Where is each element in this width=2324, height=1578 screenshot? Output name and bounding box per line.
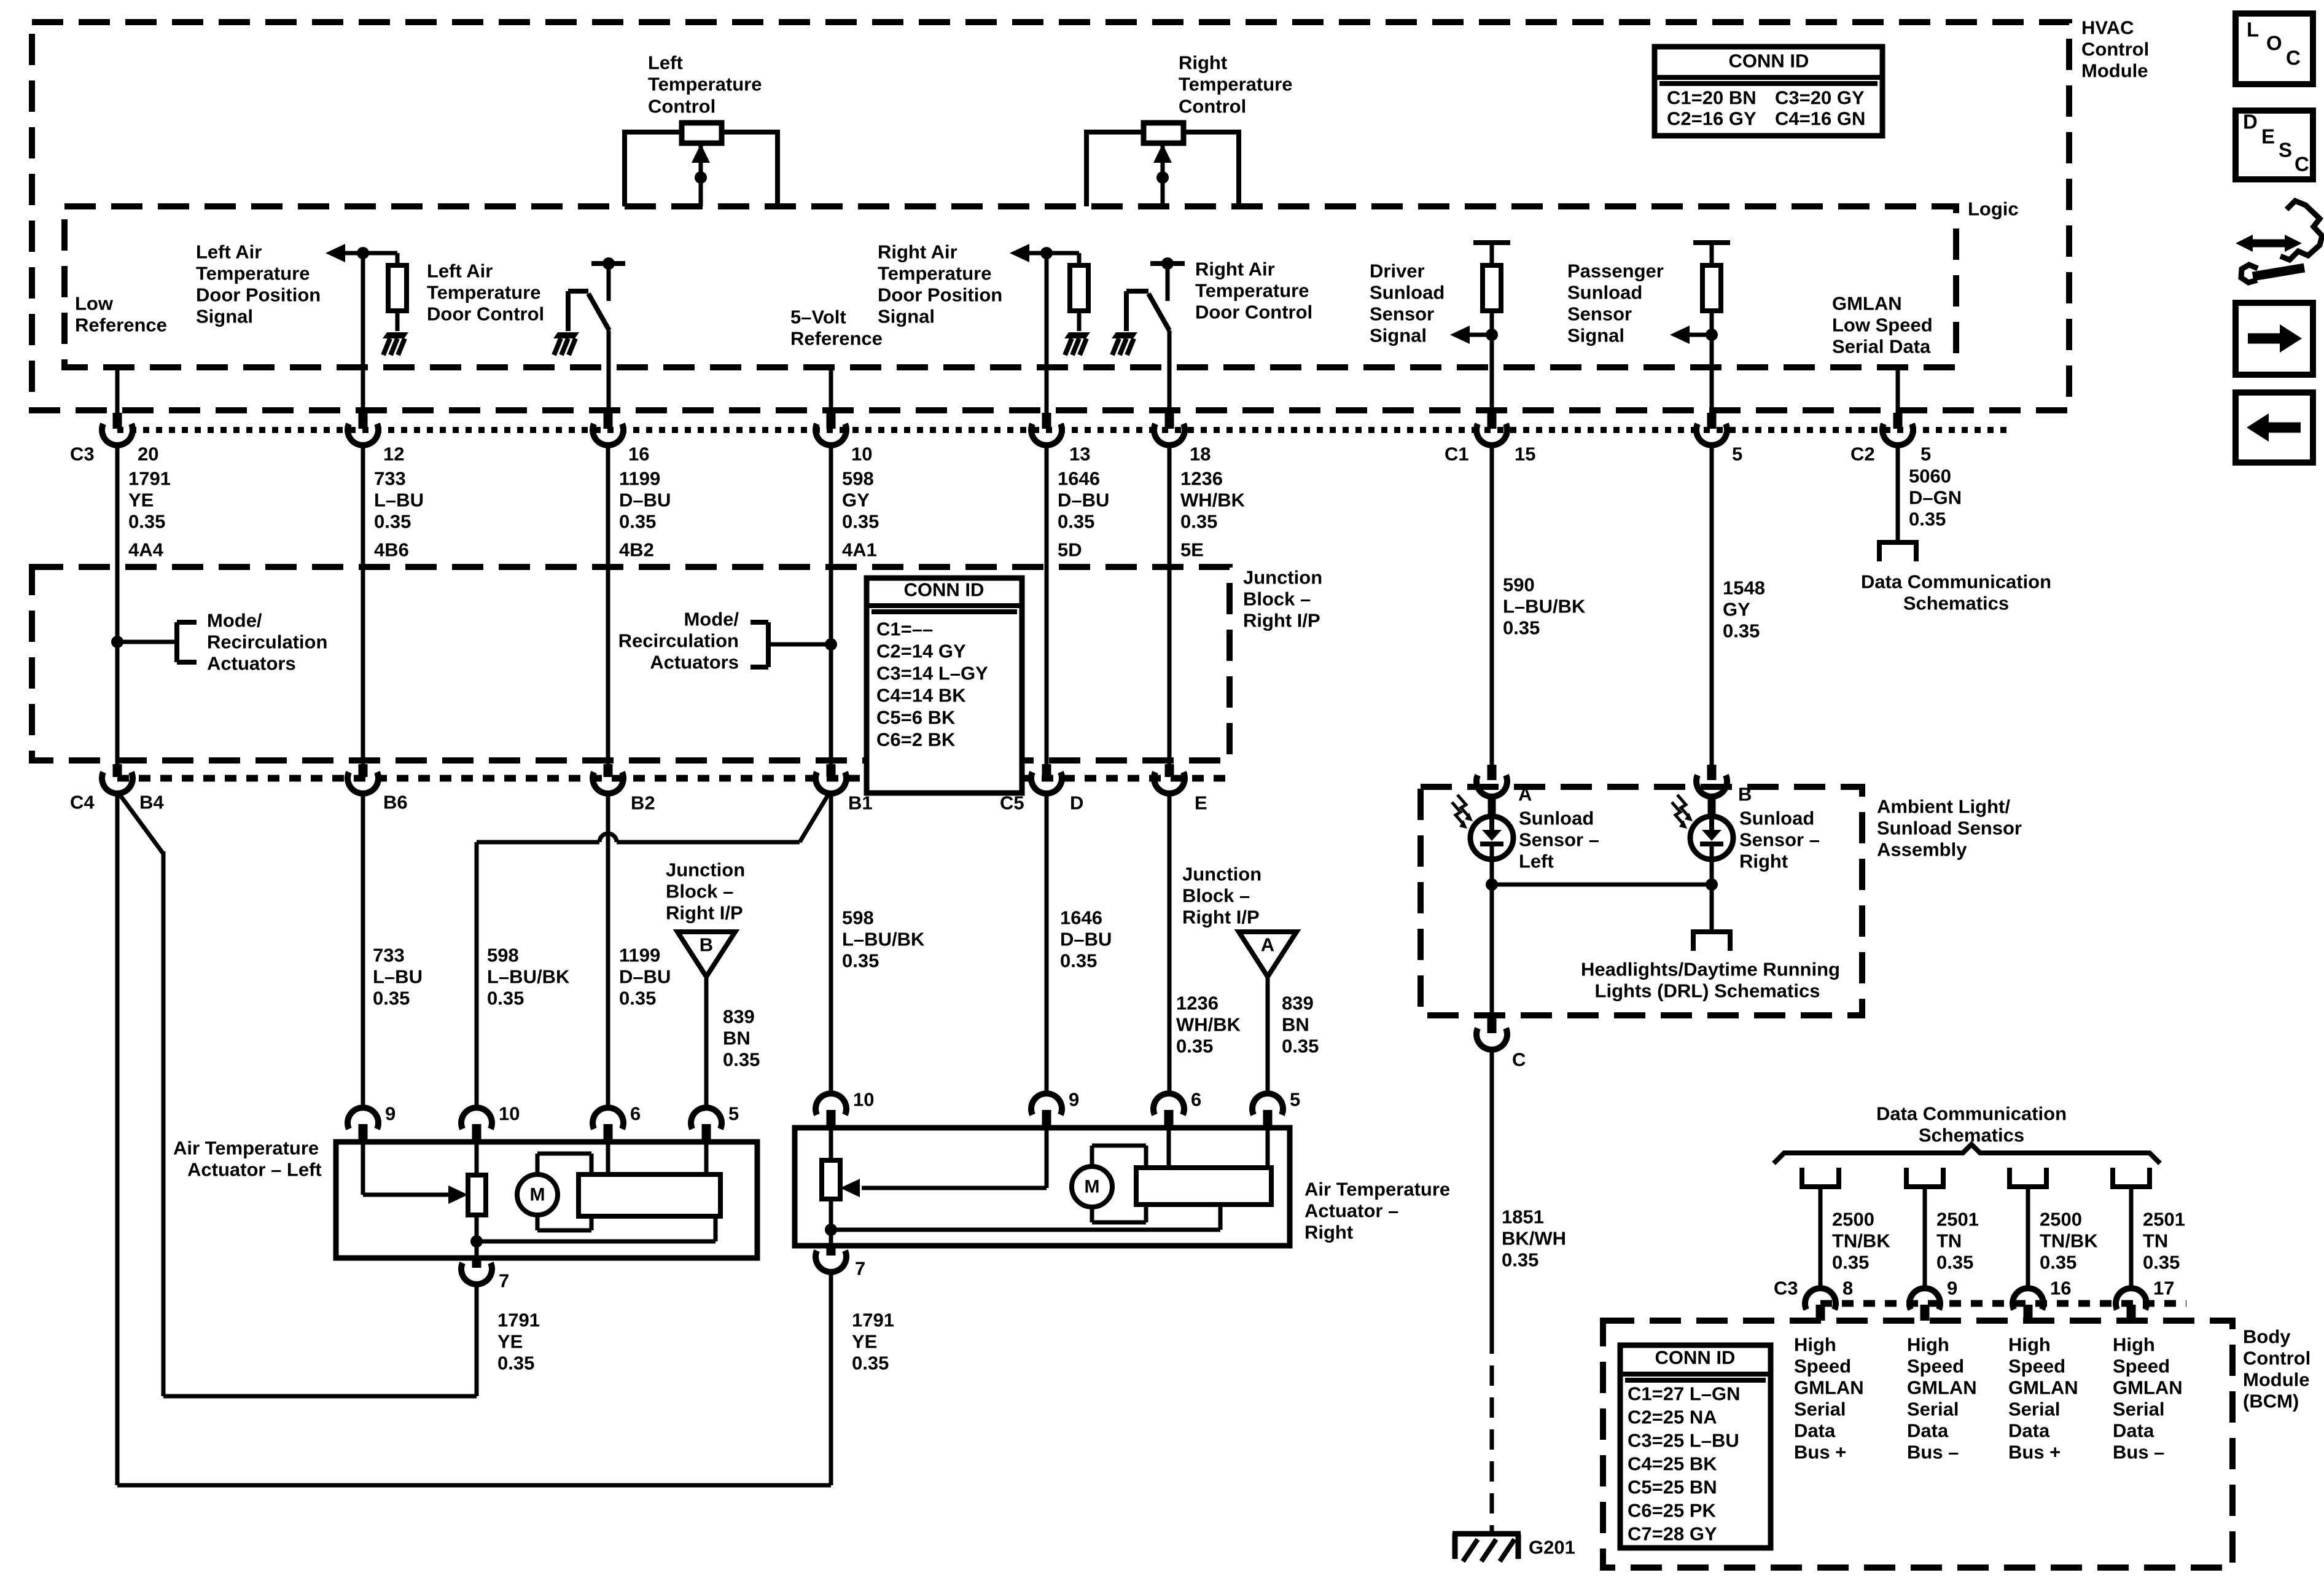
svg-text:1236: 1236 [1180, 468, 1223, 490]
svg-text:Mode/: Mode/ [684, 609, 739, 630]
svg-text:C1=––: C1=–– [876, 619, 933, 640]
svg-text:Block –: Block – [1243, 588, 1311, 610]
svg-text:18: 18 [1190, 443, 1211, 465]
svg-text:C: C [2295, 153, 2309, 176]
svg-text:C5=6 BK: C5=6 BK [876, 707, 956, 728]
svg-text:Assembly: Assembly [1877, 839, 1967, 861]
svg-text:Right Air: Right Air [878, 241, 957, 263]
svg-text:Temperature: Temperature [648, 74, 762, 95]
svg-text:BN: BN [723, 1028, 751, 1049]
svg-text:L–BU: L–BU [373, 966, 423, 988]
svg-text:Speed: Speed [1794, 1356, 1851, 1377]
svg-text:CONN ID: CONN ID [1729, 50, 1809, 72]
svg-text:2501: 2501 [2143, 1209, 2185, 1230]
svg-text:Actuator – Left: Actuator – Left [187, 1159, 322, 1181]
svg-text:0.35: 0.35 [1176, 1036, 1213, 1057]
svg-text:C3: C3 [1774, 1278, 1798, 1299]
svg-text:High: High [1794, 1334, 1836, 1356]
svg-text:10: 10 [853, 1089, 874, 1111]
svg-text:L–BU/BK: L–BU/BK [487, 966, 570, 988]
svg-text:839: 839 [723, 1006, 755, 1028]
svg-text:Bus +: Bus + [2008, 1442, 2061, 1463]
svg-text:6: 6 [630, 1103, 641, 1125]
svg-text:B6: B6 [383, 792, 408, 813]
svg-text:Ambient Light/: Ambient Light/ [1877, 796, 2010, 818]
svg-text:L–BU: L–BU [374, 490, 424, 511]
svg-text:1791: 1791 [497, 1310, 540, 1331]
svg-text:7: 7 [855, 1258, 865, 1279]
svg-text:Sunload: Sunload [1567, 282, 1642, 303]
svg-text:Bus +: Bus + [1794, 1442, 1846, 1463]
svg-text:Left: Left [1519, 851, 1554, 872]
svg-text:L–BU/BK: L–BU/BK [1503, 596, 1586, 617]
svg-text:Speed: Speed [2008, 1356, 2065, 1377]
svg-text:1646: 1646 [1060, 907, 1102, 929]
svg-text:Speed: Speed [1907, 1356, 1964, 1377]
svg-text:Control: Control [648, 96, 716, 117]
svg-text:D–BU: D–BU [619, 966, 671, 988]
svg-text:GY: GY [842, 490, 870, 511]
svg-text:Sunload: Sunload [1519, 808, 1594, 829]
svg-text:1791: 1791 [128, 468, 171, 490]
svg-text:Signal: Signal [878, 306, 935, 327]
svg-text:TN/BK: TN/BK [2040, 1230, 2098, 1252]
svg-text:C6=25 PK: C6=25 PK [1628, 1500, 1717, 1521]
svg-text:4A4: 4A4 [128, 539, 164, 561]
svg-text:Temperature: Temperature [1195, 280, 1309, 302]
svg-text:Door Control: Door Control [427, 303, 544, 325]
svg-text:Logic: Logic [1968, 198, 2019, 220]
svg-text:Reference: Reference [790, 328, 883, 350]
svg-text:Door Position: Door Position [878, 284, 1002, 306]
svg-text:0.35: 0.35 [619, 988, 656, 1009]
svg-text:Block –: Block – [1182, 885, 1250, 907]
svg-text:5D: 5D [1058, 539, 1082, 561]
svg-text:Reference: Reference [75, 314, 167, 336]
svg-text:13: 13 [1069, 443, 1090, 465]
svg-text:GY: GY [1723, 599, 1750, 620]
svg-text:Sunload Sensor: Sunload Sensor [1877, 818, 2022, 839]
svg-text:Signal: Signal [1567, 325, 1624, 346]
svg-text:Recirculation: Recirculation [207, 631, 327, 653]
svg-text:0.35: 0.35 [1060, 950, 1097, 972]
svg-text:0.35: 0.35 [842, 511, 879, 533]
svg-text:0.35: 0.35 [1058, 511, 1094, 533]
svg-text:598: 598 [842, 907, 874, 929]
svg-text:0.35: 0.35 [497, 1353, 534, 1374]
svg-text:C2: C2 [1850, 443, 1875, 465]
svg-text:C5: C5 [1000, 792, 1024, 814]
svg-text:0.35: 0.35 [1502, 1249, 1538, 1271]
svg-text:5: 5 [1290, 1089, 1300, 1111]
svg-text:M: M [1085, 1177, 1100, 1197]
svg-text:0.35: 0.35 [1503, 617, 1540, 639]
svg-text:Control: Control [2243, 1348, 2310, 1369]
svg-text:0.35: 0.35 [852, 1353, 889, 1374]
svg-text:B: B [700, 934, 713, 956]
svg-text:Door Position: Door Position [196, 284, 321, 306]
svg-text:Actuator –: Actuator – [1304, 1200, 1398, 1222]
svg-text:5E: 5E [1180, 539, 1204, 561]
svg-text:WH/BK: WH/BK [1180, 490, 1246, 511]
svg-text:Data Communication: Data Communication [1861, 571, 2051, 593]
svg-text:C1=20 BN: C1=20 BN [1667, 87, 1757, 109]
svg-text:1199: 1199 [619, 468, 660, 490]
svg-text:Air Temperature: Air Temperature [173, 1138, 319, 1159]
svg-text:Serial: Serial [1794, 1399, 1846, 1420]
svg-text:A: A [1261, 934, 1274, 956]
svg-text:0.35: 0.35 [128, 511, 165, 533]
svg-text:17: 17 [2153, 1278, 2174, 1299]
svg-text:Right Air: Right Air [1195, 259, 1275, 280]
svg-text:12: 12 [383, 443, 404, 465]
svg-text:598: 598 [842, 468, 874, 490]
svg-text:M: M [530, 1185, 545, 1205]
svg-text:10: 10 [851, 443, 872, 465]
svg-text:G201: G201 [1529, 1537, 1575, 1558]
svg-text:C: C [2286, 47, 2301, 69]
svg-text:WH/BK: WH/BK [1176, 1014, 1241, 1036]
svg-text:GMLAN: GMLAN [2008, 1377, 2078, 1399]
svg-text:D–BU: D–BU [1058, 490, 1109, 511]
svg-text:Data: Data [2113, 1420, 2154, 1442]
svg-text:YE: YE [128, 490, 154, 511]
svg-text:D–BU: D–BU [1060, 929, 1112, 950]
svg-text:BN: BN [1282, 1014, 1309, 1036]
svg-text:Left Air: Left Air [427, 260, 493, 282]
svg-text:CONN ID: CONN ID [904, 579, 985, 601]
svg-text:C5=25 BN: C5=25 BN [1628, 1477, 1717, 1498]
svg-text:598: 598 [487, 945, 519, 966]
svg-text:0.35: 0.35 [1282, 1036, 1319, 1057]
svg-text:CONN ID: CONN ID [1655, 1347, 1736, 1369]
svg-text:Schematics: Schematics [1903, 593, 2009, 614]
svg-text:C3=20 GY: C3=20 GY [1775, 87, 1865, 109]
svg-text:5: 5 [728, 1103, 739, 1125]
svg-text:1646: 1646 [1058, 468, 1100, 490]
svg-text:C: C [1512, 1049, 1526, 1071]
svg-text:Actuators: Actuators [650, 652, 739, 673]
svg-text:Data Communication: Data Communication [1876, 1103, 2067, 1125]
svg-text:Sunload: Sunload [1370, 282, 1445, 303]
svg-text:S: S [2279, 139, 2292, 162]
svg-text:TN: TN [2143, 1230, 2168, 1252]
svg-text:YE: YE [852, 1331, 877, 1353]
svg-text:Passenger: Passenger [1567, 260, 1664, 282]
svg-text:E: E [1195, 792, 1207, 814]
svg-text:B2: B2 [631, 792, 655, 814]
svg-text:C7=28 GY: C7=28 GY [1628, 1523, 1717, 1545]
svg-text:Serial Data: Serial Data [1832, 336, 1931, 357]
svg-text:Junction: Junction [666, 859, 745, 881]
svg-text:Low Speed: Low Speed [1832, 314, 1933, 336]
svg-text:Air Temperature: Air Temperature [1304, 1179, 1450, 1200]
svg-text:9: 9 [385, 1103, 396, 1125]
svg-text:733: 733 [373, 945, 405, 966]
svg-text:Recirculation: Recirculation [618, 630, 739, 652]
svg-text:8: 8 [1842, 1278, 1853, 1299]
svg-text:Body: Body [2243, 1326, 2291, 1348]
svg-text:C2=16 GY: C2=16 GY [1667, 108, 1757, 130]
svg-text:C2=25 NA: C2=25 NA [1628, 1407, 1717, 1428]
svg-text:D: D [1070, 792, 1083, 814]
svg-text:15: 15 [1515, 443, 1535, 465]
svg-text:0.35: 0.35 [619, 511, 656, 533]
svg-text:Right: Right [1304, 1222, 1353, 1243]
svg-text:16: 16 [2050, 1278, 2071, 1299]
svg-text:Left: Left [648, 52, 683, 74]
svg-text:590: 590 [1503, 574, 1535, 596]
svg-text:5060: 5060 [1909, 466, 1951, 487]
svg-text:9: 9 [1947, 1278, 1957, 1299]
svg-text:0.35: 0.35 [2143, 1252, 2180, 1273]
svg-text:Driver: Driver [1370, 260, 1425, 282]
svg-text:Actuators: Actuators [207, 653, 296, 674]
svg-text:TN: TN [1936, 1230, 1962, 1252]
svg-text:C4=25 BK: C4=25 BK [1628, 1453, 1717, 1475]
svg-text:20: 20 [138, 443, 158, 465]
svg-text:High: High [2008, 1334, 2051, 1356]
svg-text:0.35: 0.35 [1723, 620, 1760, 642]
svg-text:Temperature: Temperature [196, 263, 310, 284]
svg-text:D–GN: D–GN [1909, 487, 1962, 509]
svg-text:Control: Control [1179, 96, 1246, 117]
svg-text:2500: 2500 [2040, 1209, 2082, 1230]
svg-text:0.35: 0.35 [1909, 509, 1946, 530]
svg-text:B4: B4 [139, 792, 164, 813]
svg-text:4B6: 4B6 [374, 539, 409, 561]
svg-text:Control: Control [2081, 39, 2149, 60]
svg-text:Sensor: Sensor [1567, 303, 1632, 325]
svg-text:Data: Data [1794, 1420, 1836, 1442]
svg-text:2500: 2500 [1832, 1209, 1874, 1230]
svg-text:Sensor: Sensor [1370, 303, 1434, 325]
svg-text:Serial: Serial [2113, 1399, 2164, 1420]
svg-text:Sunload: Sunload [1739, 808, 1814, 829]
svg-text:Temperature: Temperature [878, 263, 992, 284]
svg-text:Headlights/Daytime Running: Headlights/Daytime Running [1581, 959, 1840, 980]
svg-text:1791: 1791 [852, 1310, 894, 1331]
svg-text:7: 7 [499, 1270, 509, 1292]
svg-text:733: 733 [374, 468, 406, 490]
svg-text:BK/WH: BK/WH [1502, 1228, 1566, 1249]
svg-text:C2=14 GY: C2=14 GY [876, 641, 966, 662]
svg-text:5: 5 [1920, 443, 1931, 465]
svg-text:Junction: Junction [1243, 567, 1322, 588]
svg-text:Mode/: Mode/ [207, 610, 262, 631]
svg-text:0.35: 0.35 [723, 1049, 760, 1071]
svg-text:C1: C1 [1445, 443, 1469, 465]
svg-text:L–BU/BK: L–BU/BK [842, 929, 925, 950]
svg-text:9: 9 [1069, 1089, 1079, 1111]
svg-text:D: D [2243, 111, 2258, 133]
svg-text:YE: YE [497, 1331, 523, 1353]
svg-text:0.35: 0.35 [2040, 1252, 2076, 1273]
svg-text:1548: 1548 [1723, 577, 1765, 599]
svg-text:High: High [2113, 1334, 2155, 1356]
svg-text:O: O [2266, 32, 2282, 55]
svg-text:Temperature: Temperature [1179, 74, 1293, 95]
svg-text:C4: C4 [70, 792, 95, 813]
svg-text:C3=14 L–GY: C3=14 L–GY [876, 663, 988, 684]
svg-text:6: 6 [1191, 1089, 1201, 1111]
svg-text:D–BU: D–BU [619, 490, 671, 511]
svg-text:Low: Low [75, 293, 114, 314]
svg-text:4A1: 4A1 [842, 539, 877, 561]
svg-text:C6=2 BK: C6=2 BK [876, 729, 956, 751]
svg-text:Right: Right [1739, 851, 1788, 872]
svg-text:Module: Module [2243, 1369, 2310, 1391]
svg-text:Right I/P: Right I/P [666, 902, 743, 924]
svg-text:HVAC: HVAC [2081, 17, 2134, 39]
svg-text:0.35: 0.35 [1832, 1252, 1869, 1273]
svg-text:0.35: 0.35 [842, 950, 879, 972]
svg-text:Data: Data [1907, 1420, 1949, 1442]
svg-text:B1: B1 [848, 792, 873, 814]
svg-text:Sensor –: Sensor – [1519, 829, 1599, 851]
svg-text:1851: 1851 [1502, 1206, 1544, 1228]
svg-text:C1=27 L–GN: C1=27 L–GN [1628, 1383, 1741, 1405]
svg-text:839: 839 [1282, 993, 1314, 1014]
svg-text:Temperature: Temperature [427, 282, 541, 303]
svg-text:16: 16 [628, 443, 649, 465]
svg-text:Signal: Signal [196, 306, 253, 327]
svg-text:5–Volt: 5–Volt [790, 307, 846, 328]
svg-text:5: 5 [1732, 443, 1742, 465]
svg-text:Speed: Speed [2113, 1356, 2170, 1377]
svg-text:Serial: Serial [2008, 1399, 2060, 1420]
svg-text:4B2: 4B2 [619, 539, 654, 561]
svg-text:10: 10 [499, 1103, 520, 1125]
svg-text:Bus –: Bus – [2113, 1442, 2164, 1463]
svg-text:Serial: Serial [1907, 1399, 1959, 1420]
svg-text:C4=14 BK: C4=14 BK [876, 685, 966, 706]
svg-text:GMLAN: GMLAN [1832, 293, 1902, 314]
svg-text:Right: Right [1179, 52, 1227, 74]
svg-text:0.35: 0.35 [374, 511, 411, 533]
svg-text:0.35: 0.35 [487, 988, 524, 1009]
svg-text:L: L [2247, 18, 2259, 41]
svg-text:Junction: Junction [1182, 864, 1261, 885]
svg-text:Data: Data [2008, 1420, 2050, 1442]
svg-text:C4=16 GN: C4=16 GN [1775, 108, 1865, 130]
svg-text:C3: C3 [70, 443, 95, 465]
svg-text:Block –: Block – [666, 881, 733, 902]
svg-text:Signal: Signal [1370, 325, 1427, 346]
svg-text:GMLAN: GMLAN [2113, 1377, 2183, 1399]
svg-text:E: E [2261, 125, 2275, 148]
svg-text:Right I/P: Right I/P [1182, 907, 1260, 928]
svg-text:GMLAN: GMLAN [1907, 1377, 1977, 1399]
svg-text:(BCM): (BCM) [2243, 1391, 2299, 1412]
svg-text:0.35: 0.35 [1936, 1252, 1973, 1273]
svg-text:Left Air: Left Air [196, 241, 262, 263]
svg-text:1199: 1199 [619, 945, 660, 966]
svg-text:Module: Module [2081, 60, 2148, 82]
svg-text:C3=25 L–BU: C3=25 L–BU [1628, 1430, 1739, 1451]
svg-text:High: High [1907, 1334, 1949, 1356]
svg-text:Right I/P: Right I/P [1243, 610, 1320, 631]
svg-text:0.35: 0.35 [373, 988, 410, 1009]
svg-text:GMLAN: GMLAN [1794, 1377, 1864, 1399]
svg-text:Lights (DRL) Schematics: Lights (DRL) Schematics [1595, 980, 1820, 1002]
svg-text:Bus –: Bus – [1907, 1442, 1959, 1463]
svg-text:2501: 2501 [1936, 1209, 1979, 1230]
svg-text:Door Control: Door Control [1195, 302, 1312, 323]
svg-text:A: A [1518, 784, 1532, 805]
svg-text:TN/BK: TN/BK [1832, 1230, 1890, 1252]
svg-text:0.35: 0.35 [1180, 511, 1217, 533]
svg-text:Sensor –: Sensor – [1739, 829, 1820, 851]
svg-text:1236: 1236 [1176, 993, 1219, 1014]
svg-text:B: B [1738, 784, 1752, 805]
